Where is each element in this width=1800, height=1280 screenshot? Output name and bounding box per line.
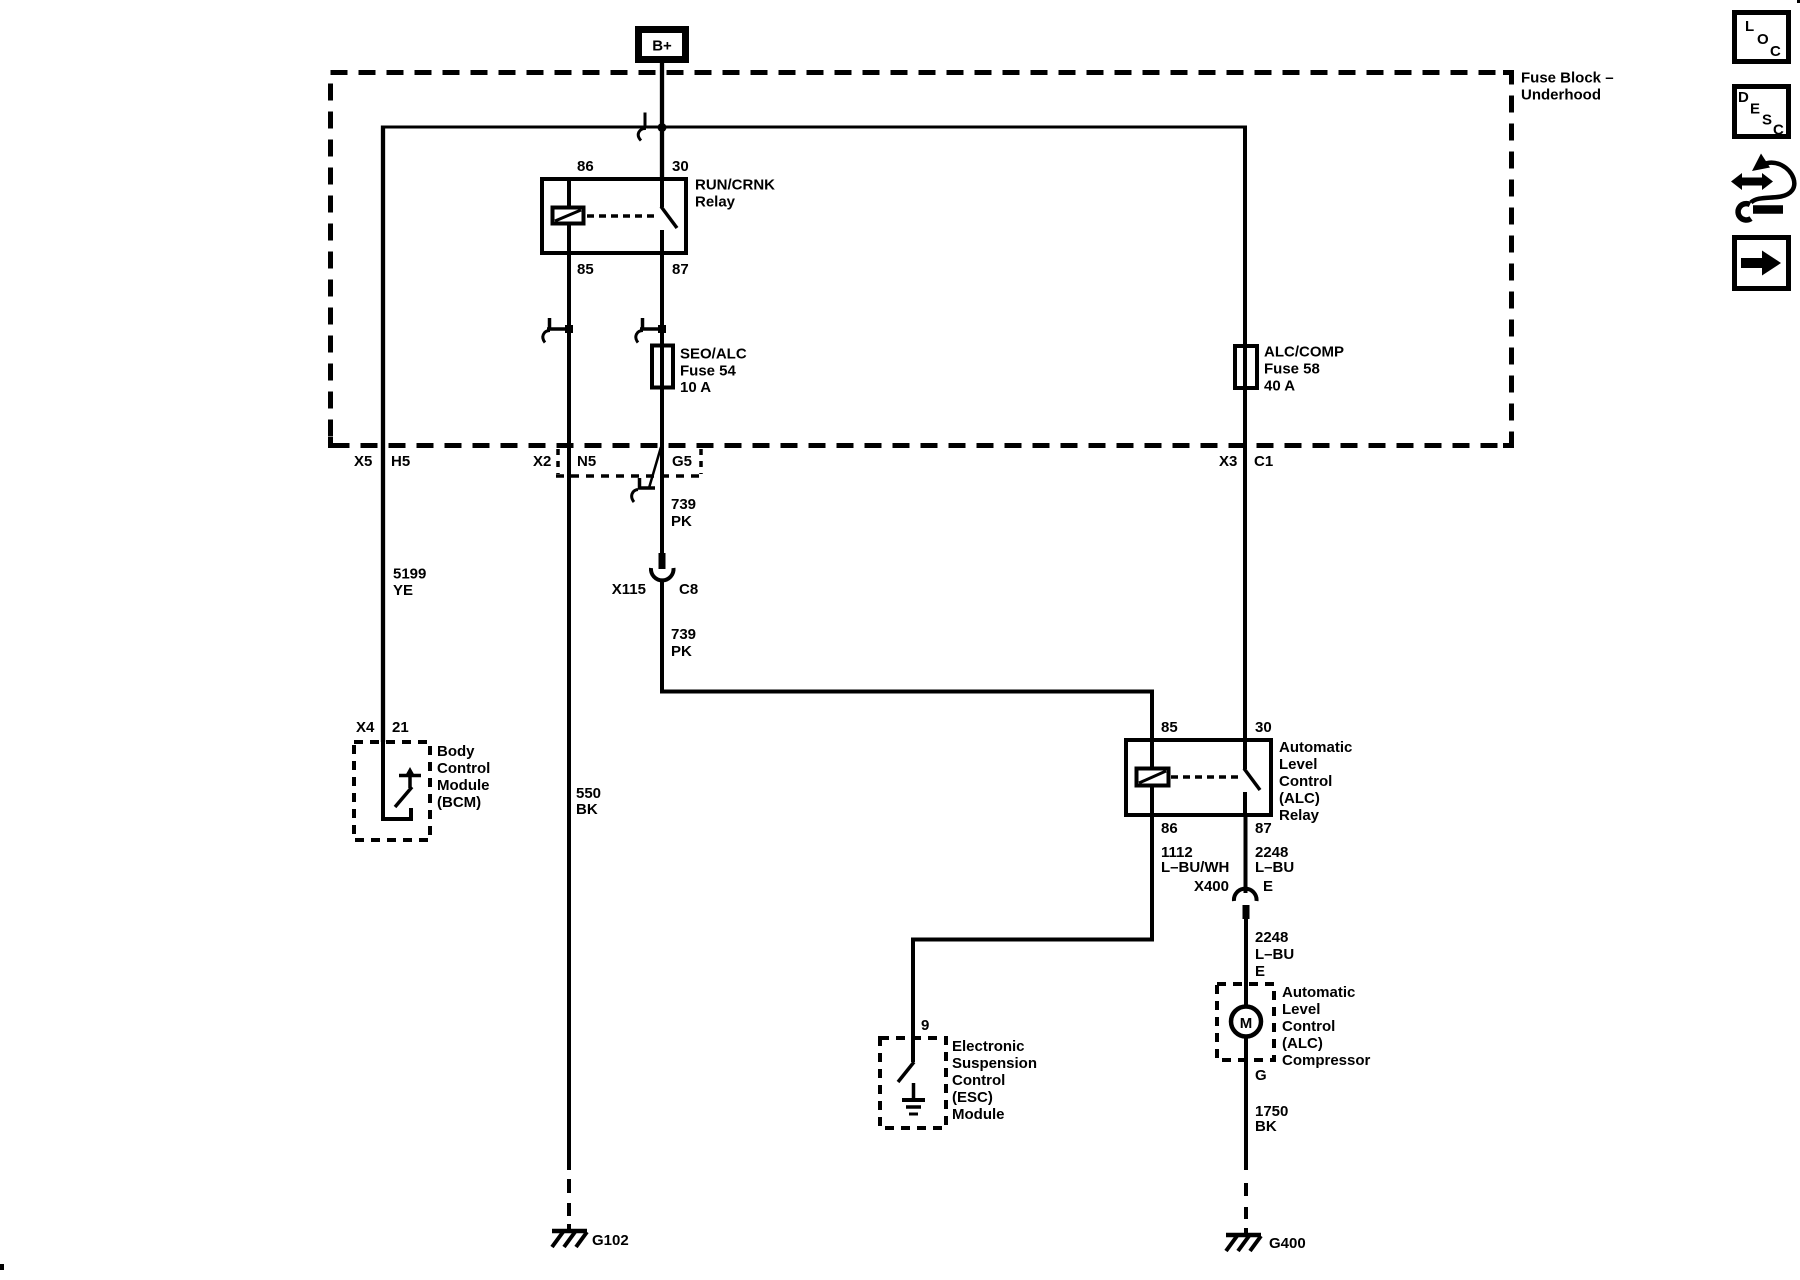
wrench [1753,205,1783,214]
wire compressor G down [1244,1038,1248,1170]
svg-text:Suspension: Suspension [952,1055,1037,1072]
svg-text:(BCM): (BCM) [437,794,481,811]
svg-text:(ESC): (ESC) [952,1089,993,1106]
svg-text:G: G [1255,1067,1267,1084]
svg-text:30: 30 [1255,719,1272,736]
BCM switch blade [395,787,412,807]
junction dot at B+ column [658,123,667,132]
svg-text:Level: Level [1279,756,1317,773]
svg-text:B+: B+ [652,38,672,55]
G5 branch hook [632,447,661,502]
svg-text:40 A: 40 A [1264,378,1295,395]
wire left branch down to BCM [381,126,385,743]
svg-text:Body: Body [437,743,475,760]
svg-text:O: O [1757,31,1769,48]
ALC relay switch [1243,740,1247,769]
double arrow [1731,173,1773,190]
svg-text:H5: H5 [391,453,410,470]
svg-text:L–BU: L–BU [1255,859,1294,876]
ground G102 [552,1231,629,1249]
svg-text:21: 21 [392,719,409,736]
svg-text:(ALC): (ALC) [1282,1035,1323,1052]
svg-text:YE: YE [393,582,413,599]
ESC internal ground [912,1083,916,1099]
top horizontal bus wire [383,126,1245,129]
svg-text:X115: X115 [612,581,646,598]
off-page hook near B+ junction [644,113,647,128]
svg-text:X4: X4 [356,719,375,736]
svg-text:L: L [1745,18,1754,35]
electronic suspension control ESC module [880,1017,1037,1128]
wire X400 down to compressor [1244,919,1248,1005]
relay switch [660,179,664,207]
wire fuse 58 column (B+ bus to ALC relay 30) [1243,126,1247,741]
svg-text:86: 86 [577,158,594,175]
svg-text:Control: Control [1279,773,1332,790]
ESC switch blade [898,1062,914,1082]
battery feed B+ [639,30,686,60]
wire relay 87 down to fuse 54 [660,253,664,556]
svg-text:2248: 2248 [1255,929,1288,946]
svg-text:87: 87 [1255,820,1272,837]
svg-text:BK: BK [576,801,598,818]
ESC internal wire [911,1038,915,1062]
icon wiring/repair scribble [1731,154,1794,221]
svg-text:E: E [1750,101,1760,118]
ALC relay coil [1137,769,1169,786]
body control module BCM [354,742,490,840]
svg-text:G400: G400 [1269,1235,1306,1252]
svg-text:Automatic: Automatic [1282,984,1355,1001]
svg-text:86: 86 [1161,820,1178,837]
svg-text:L–BU/WH: L–BU/WH [1161,859,1229,876]
ALC relay [1126,719,1352,837]
svg-text:BK: BK [1255,1118,1277,1135]
svg-text:Module: Module [437,777,490,794]
svg-text:739: 739 [671,496,696,513]
wire B+ down to relay 30 [660,63,664,181]
svg-text:C1: C1 [1254,453,1273,470]
wire ALC relay 86 to ESC module [913,815,1152,1038]
svg-text:Relay: Relay [1279,807,1320,824]
curved flow line with arrowhead [1752,154,1770,172]
svg-text:X400: X400 [1194,878,1229,895]
svg-text:X3: X3 [1219,453,1237,470]
svg-text:Control: Control [437,760,490,777]
ALC relay dashed link [1171,775,1238,779]
svg-text:Compressor: Compressor [1282,1052,1371,1069]
svg-text:87: 87 [672,261,689,278]
RUN/CRNK relay [542,158,775,278]
fuse SEO/ALC Fuse 54 [652,346,747,397]
svg-text:S: S [1762,112,1772,129]
svg-text:Underhood: Underhood [1521,87,1601,104]
fuse ALC/COMP Fuse 58 [1235,344,1344,395]
svg-text:Module: Module [952,1106,1005,1123]
svg-text:L–BU: L–BU [1255,946,1294,963]
svg-text:10 A: 10 A [680,379,711,396]
svg-text:9: 9 [921,1017,929,1034]
relay dashed link [587,214,654,218]
svg-text:G102: G102 [592,1232,629,1249]
svg-text:85: 85 [577,261,594,278]
svg-text:Automatic: Automatic [1279,739,1352,756]
svg-text:Fuse 54: Fuse 54 [680,363,737,380]
svg-text:Fuse Block –: Fuse Block – [1521,70,1614,87]
relay coil [553,208,584,224]
svg-text:Fuse 58: Fuse 58 [1264,361,1320,378]
svg-text:G5: G5 [672,453,692,470]
icon DESC box [1735,87,1789,139]
motor M [1231,1007,1261,1037]
svg-text:C: C [1770,43,1781,60]
ALC compressor module [1217,984,1371,1069]
svg-text:RUN/CRNK: RUN/CRNK [695,177,775,194]
svg-text:X5: X5 [354,453,372,470]
svg-text:Relay: Relay [695,194,736,211]
dashed wire tail to G102 [567,1179,571,1230]
svg-text:SEO/ALC: SEO/ALC [680,346,747,363]
svg-text:Level: Level [1282,1001,1320,1018]
wire X115 down, over to ALC relay 85 [662,581,1152,740]
svg-text:E: E [1255,963,1265,980]
off-page hook on 550 wire [543,318,573,343]
icon forward arrow box [1735,238,1789,289]
inline connector X115 C8 [612,553,698,598]
inline connector X400 E [1234,889,1257,919]
svg-text:X2: X2 [533,453,551,470]
svg-text:E: E [1263,878,1273,895]
svg-text:(ALC): (ALC) [1279,790,1320,807]
off-page hook on 739 wire [636,318,666,343]
svg-text:PK: PK [671,643,692,660]
svg-text:Electronic: Electronic [952,1038,1025,1055]
wire relay 85 down (550 BK circuit) [567,253,571,1170]
BCM internal wire [383,742,411,819]
fuse block underhood dashed box [331,73,1512,446]
svg-text:N5: N5 [577,453,596,470]
svg-text:Control: Control [952,1072,1005,1089]
connector dashed sub-box N5/G5 [556,449,701,476]
page mark bottom left [0,1264,4,1270]
svg-text:C: C [1773,122,1784,139]
wire ALC relay 87 down to X400 [1244,815,1248,893]
dashed wire tail to G400 [1244,1183,1248,1234]
icon LOC box [1735,13,1789,62]
svg-text:739: 739 [671,626,696,643]
svg-text:30: 30 [672,158,689,175]
svg-text:M: M [1240,1015,1253,1032]
svg-text:Control: Control [1282,1018,1335,1035]
svg-text:5199: 5199 [393,566,426,583]
svg-text:ALC/COMP: ALC/COMP [1264,344,1344,361]
svg-text:PK: PK [671,513,692,530]
svg-text:550: 550 [576,785,601,802]
page corner mark top right [1797,0,1800,3]
BCM driver bar [408,777,412,788]
svg-text:85: 85 [1161,719,1178,736]
svg-text:D: D [1738,89,1749,106]
ground G400 [1226,1235,1306,1252]
svg-text:C8: C8 [679,581,698,598]
